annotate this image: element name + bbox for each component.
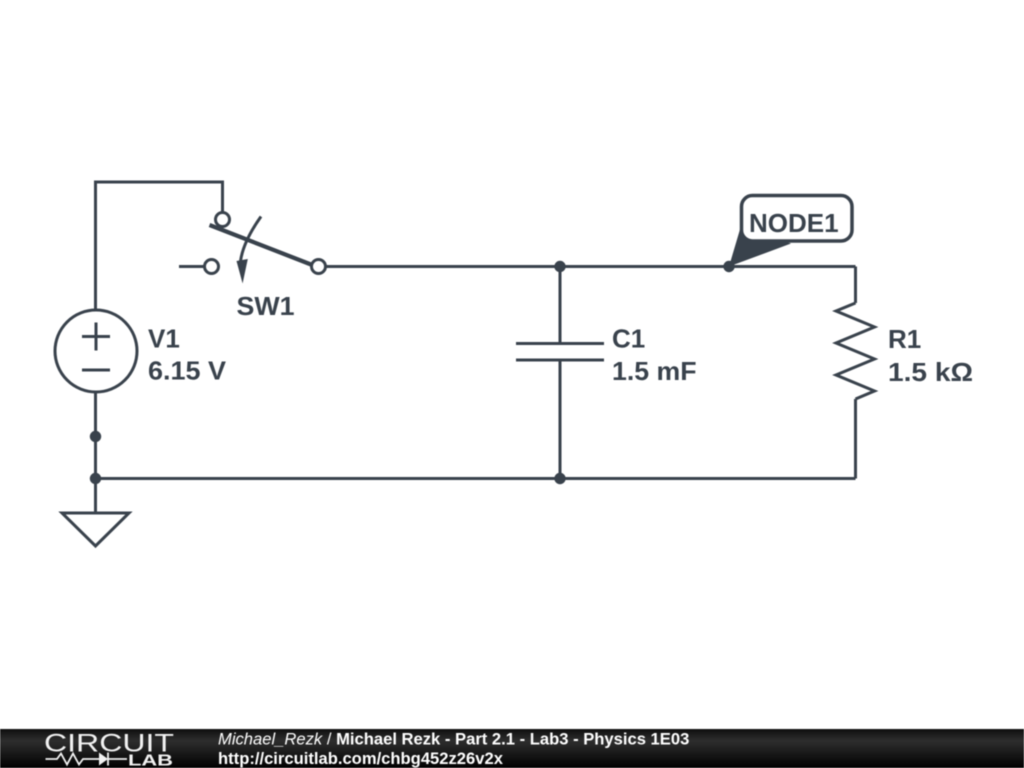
SW1 arrowhead — [237, 259, 248, 284]
wire: R1 bottom lead — [854, 399, 857, 479]
wire: SW1 pole stub (left) — [179, 265, 212, 268]
SW1 blade — [210, 225, 312, 265]
wire: R1 top lead — [854, 267, 857, 304]
SW1 pole circle — [205, 260, 219, 274]
junction dot: C1 top node — [554, 261, 565, 272]
SW1 terminal 1 circle — [216, 213, 230, 227]
wire: SW1 terminal 2 right to NODE1 and R1 top corner — [319, 265, 856, 268]
svg-text:LAB: LAB — [128, 753, 173, 768]
wire: V1 bottom lead down to ground — [94, 392, 97, 513]
wire: V1 top terminal up and right to SW1 terminal 1 — [96, 182, 223, 311]
node NODE1 callout tail — [729, 226, 791, 267]
svg-text:NODE1: NODE1 — [749, 208, 839, 238]
node NODE1 callout balloon — [742, 196, 853, 242]
svg-text:V1: V1 — [148, 324, 180, 354]
junction dot: V1 bottom node — [90, 431, 101, 442]
svg-text:1.5 kΩ: 1.5 kΩ — [888, 357, 973, 387]
ground symbol — [62, 513, 129, 546]
svg-text:C1: C1 — [612, 324, 645, 354]
V1 plus sign — [82, 323, 110, 351]
resistor R1 body — [836, 303, 875, 399]
junction dot: C1 bottom node — [554, 473, 565, 484]
svg-text:R1: R1 — [888, 324, 921, 354]
junction dot: ground rail left — [90, 473, 101, 484]
SW1 terminal 2 circle — [312, 260, 326, 274]
svg-text:Michael_Rezk / Michael Rezk -: Michael_Rezk / Michael Rezk - Part 2.1 -… — [218, 730, 689, 749]
capacitor C1 plates — [516, 344, 604, 361]
switch SW1 — [205, 213, 326, 284]
CircuitLab logo schematic squiggle (resistor + diode) — [46, 753, 128, 766]
V1 minus sign — [82, 369, 110, 372]
capacitor C1 top lead — [559, 267, 562, 344]
svg-text:1.5 mF: 1.5 mF — [612, 356, 697, 386]
svg-text:SW1: SW1 — [237, 291, 295, 321]
SW1 actuation arrow arc — [241, 217, 262, 262]
capacitor C1 bottom lead — [559, 360, 562, 479]
voltage source V1 — [55, 310, 137, 392]
junction dot: NODE1 — [723, 261, 734, 272]
svg-text:6.15 V: 6.15 V — [148, 356, 227, 386]
wire: bottom return rail — [96, 477, 856, 480]
svg-text:http://circuitlab.com/chbg452z: http://circuitlab.com/chbg452z26v2x — [218, 749, 504, 768]
